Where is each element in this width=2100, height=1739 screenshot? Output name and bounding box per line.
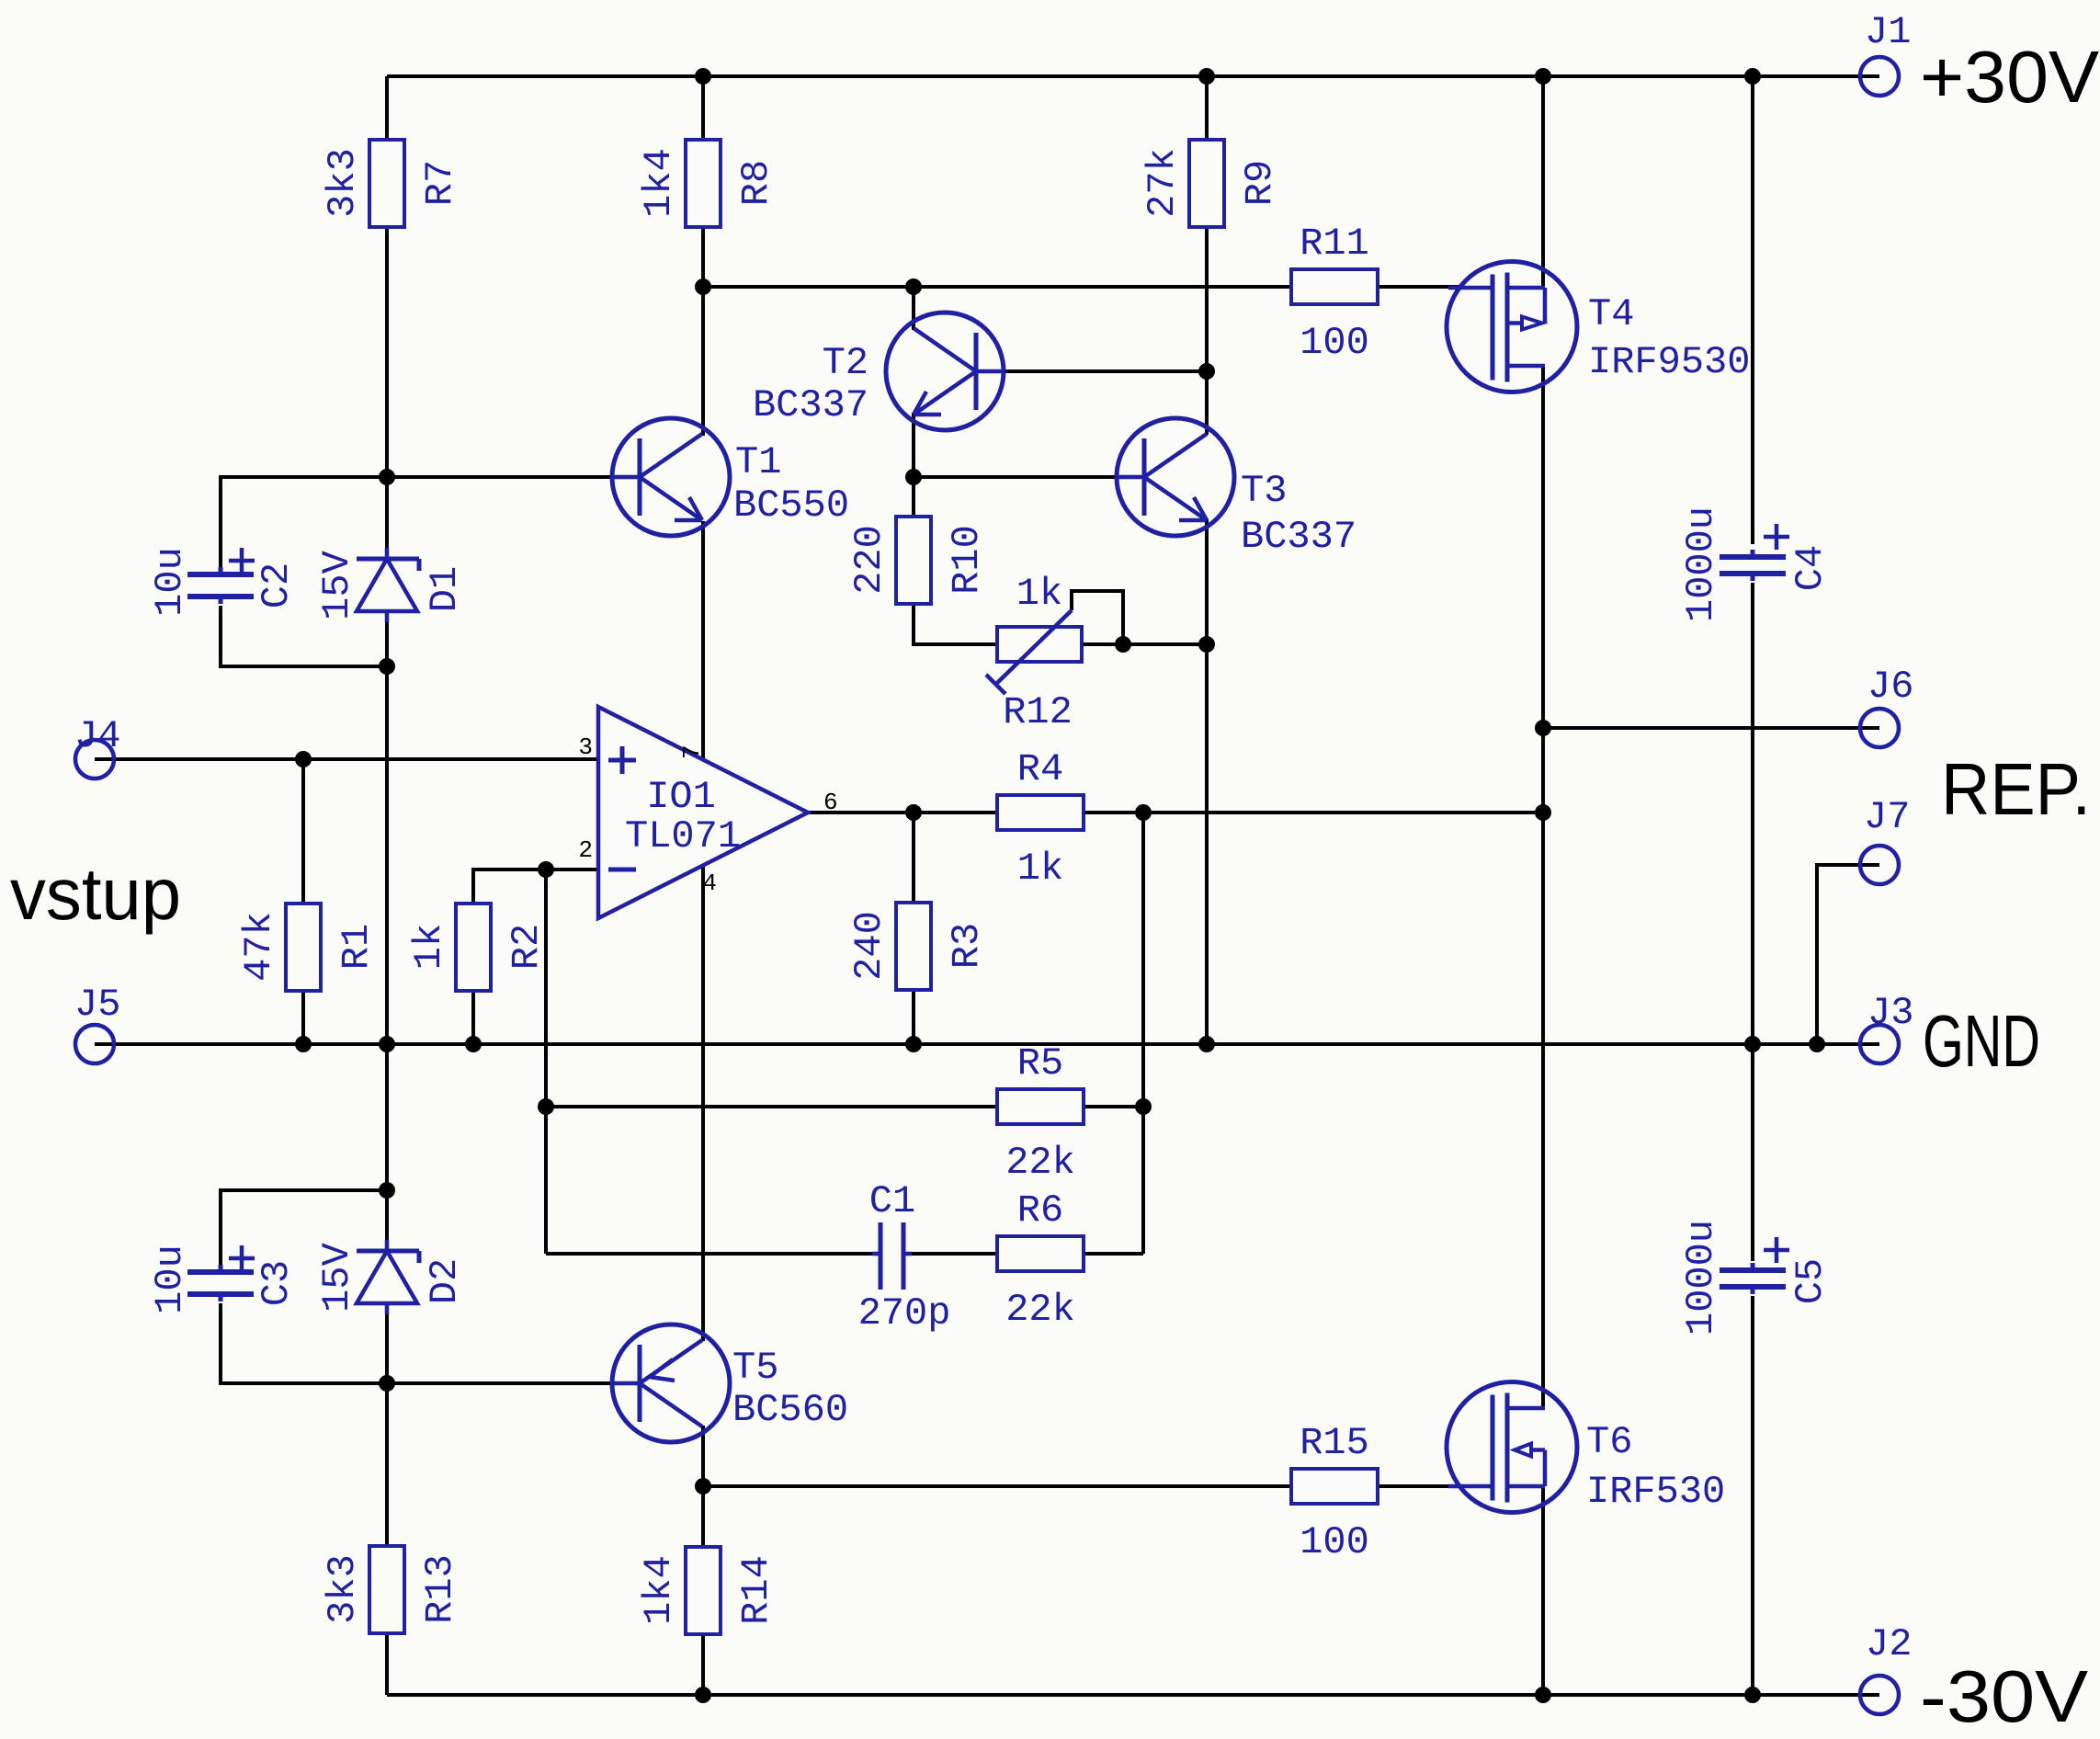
junction J7 GND xyxy=(1809,1036,1825,1052)
resistor R3 xyxy=(847,903,989,990)
svg-text:1k: 1k xyxy=(407,924,451,970)
wire R7 bottom to D1 node xyxy=(385,227,389,550)
junction R5 right xyxy=(1135,1098,1152,1115)
connector J3 xyxy=(1860,991,1913,1063)
zener diode D2 (15V) xyxy=(315,1240,467,1314)
junction T6 source rail xyxy=(1535,1687,1551,1703)
svg-text:GND: GND xyxy=(1923,1000,2040,1082)
svg-text:R6: R6 xyxy=(1017,1188,1063,1233)
junction T2 emitter/R10 xyxy=(905,469,922,485)
svg-text:240: 240 xyxy=(847,911,891,981)
wire op-amp pin 4 to T5 emitter xyxy=(701,867,705,1341)
svg-text:R4: R4 xyxy=(1017,747,1063,791)
wire R1 top lead xyxy=(301,759,305,904)
wire R2 top bracket xyxy=(473,869,598,904)
junction R9 top rail xyxy=(1198,68,1215,85)
wire R2 bottom lead xyxy=(471,991,475,1044)
wire C3 bottom corner xyxy=(221,1303,387,1383)
svg-text:C4: C4 xyxy=(1788,545,1833,591)
wire T5 base row xyxy=(387,1381,612,1385)
resistor R2 xyxy=(407,904,549,991)
junction D2/C3 top xyxy=(379,1182,395,1199)
svg-text:4: 4 xyxy=(702,869,717,897)
wire D2 node to C3 top xyxy=(221,1190,387,1265)
net label -30V xyxy=(1920,1655,2089,1737)
wire C1 row left xyxy=(546,1252,874,1256)
resistor R7 xyxy=(321,140,462,227)
svg-text:100: 100 xyxy=(1300,321,1369,365)
svg-text:-30V: -30V xyxy=(1920,1655,2089,1737)
svg-text:J1: J1 xyxy=(1865,10,1911,54)
svg-text:C2: C2 xyxy=(255,563,299,608)
svg-text:R3: R3 xyxy=(945,923,989,969)
transistor T1 (BC550 NPN) xyxy=(612,418,849,536)
wire T2 collector xyxy=(912,287,915,330)
transistor T2 (BC337 NPN, mirrored) xyxy=(753,313,1004,430)
op-amp U1 (IO1 TL071) xyxy=(598,707,808,918)
wire column A top (rail to R7) xyxy=(385,76,389,140)
svg-text:27k: 27k xyxy=(1141,148,1185,218)
connector J7 xyxy=(1860,795,1910,884)
wire R11 to T4 gate xyxy=(1376,285,1463,289)
wire +30V rail xyxy=(387,74,1879,78)
wire -30V rail xyxy=(387,1693,1879,1697)
wire R14 to -30V rail xyxy=(701,1634,705,1695)
resistor R13 xyxy=(321,1546,462,1633)
wire R12 wiper bracket xyxy=(1072,591,1123,644)
wire T5 collector to node xyxy=(701,1426,705,1547)
connector J4 xyxy=(74,714,120,779)
wire R6 right lead xyxy=(1084,1252,1143,1256)
capacitor C1 (270p) xyxy=(858,1179,951,1336)
svg-text:R11: R11 xyxy=(1300,222,1369,266)
junction T2 collector xyxy=(905,278,922,295)
junction R8 top rail xyxy=(695,68,711,85)
svg-text:15V: 15V xyxy=(315,551,359,620)
wire D2 anode to R13 xyxy=(385,1313,389,1546)
resistor R14 xyxy=(637,1547,778,1634)
junction R4/feedback xyxy=(1135,804,1152,821)
svg-text:220: 220 xyxy=(847,525,891,595)
wire op-amp output to R4 xyxy=(808,811,997,814)
svg-text:R10: R10 xyxy=(945,525,989,595)
wire C5 to -30V rail xyxy=(1751,1296,1754,1695)
trimmer R12 xyxy=(986,572,1082,734)
connector J1 xyxy=(1860,10,1911,96)
wire C4 to GND rail xyxy=(1751,583,1754,1044)
svg-text:47k: 47k xyxy=(237,912,281,982)
svg-text:D2: D2 xyxy=(423,1258,467,1304)
net label GND xyxy=(1923,1000,2040,1082)
resistor R15 xyxy=(1291,1421,1378,1564)
junction R3 GND xyxy=(905,1036,922,1052)
capacitor C2 (10u) xyxy=(148,547,299,617)
MOSFET T6 (IRF530 N-channel) xyxy=(1447,1382,1725,1515)
wire R3 top lead xyxy=(912,813,915,903)
resistor R8 xyxy=(637,140,778,227)
svg-text:15V: 15V xyxy=(315,1243,359,1313)
svg-text:T3: T3 xyxy=(1241,469,1287,513)
wire rail to R8 xyxy=(701,76,705,140)
junction T4 drain rail xyxy=(1535,68,1551,85)
svg-text:IO1: IO1 xyxy=(646,775,716,819)
junction column A GND xyxy=(379,1036,395,1052)
wire bias row (R8 node to R11) xyxy=(703,285,1291,289)
junction R12 wiper xyxy=(1115,636,1131,653)
svg-text:T6: T6 xyxy=(1586,1420,1632,1464)
svg-text:REP.: REP. xyxy=(1941,748,2091,830)
junction R8/T1 collector xyxy=(695,278,711,295)
svg-text:vstup: vstup xyxy=(10,853,181,935)
wire rail to C4 xyxy=(1751,76,1754,544)
wire GND rail xyxy=(95,1042,1879,1046)
svg-text:3: 3 xyxy=(578,733,593,761)
resistor R10 xyxy=(847,517,989,604)
wire REP output to J6 xyxy=(1543,726,1879,730)
junction D1/C2/T1 base xyxy=(379,469,395,485)
svg-text:J4: J4 xyxy=(74,714,120,758)
svg-text:T5: T5 xyxy=(732,1346,778,1390)
junction C4/C5 GND xyxy=(1744,1036,1761,1052)
resistor R11 xyxy=(1291,222,1378,365)
svg-text:3k3: 3k3 xyxy=(321,148,365,218)
wire R9 to T2 base node xyxy=(1205,227,1209,435)
svg-text:J3: J3 xyxy=(1867,991,1913,1035)
svg-text:BC337: BC337 xyxy=(753,383,868,427)
svg-text:1k4: 1k4 xyxy=(637,1555,681,1625)
svg-text:J2: J2 xyxy=(1866,1622,1912,1666)
junction T2 base/R9 xyxy=(1198,363,1215,380)
wire C2 bottom to D1 anode node xyxy=(221,606,387,666)
svg-text:IRF9530: IRF9530 xyxy=(1588,340,1750,384)
pin number 3 (op-amp +in) xyxy=(578,733,593,761)
wire R10 to R12 xyxy=(914,604,997,644)
svg-text:R8: R8 xyxy=(734,160,778,206)
svg-text:7: 7 xyxy=(678,744,706,759)
svg-text:1k4: 1k4 xyxy=(637,148,681,218)
svg-text:1k: 1k xyxy=(1016,572,1062,616)
wire R13 to -30V rail xyxy=(385,1633,389,1695)
wire D1 node to C2 top xyxy=(221,477,387,567)
pin number 2 (op-amp -in) xyxy=(578,836,593,864)
svg-text:22k: 22k xyxy=(1005,1141,1075,1185)
resistor R1 xyxy=(237,904,379,991)
junction C5 rail xyxy=(1744,1687,1761,1703)
capacitor C4 (1000u) xyxy=(1679,506,1833,622)
wire R5 row left xyxy=(546,1105,997,1108)
svg-text:2: 2 xyxy=(578,836,593,864)
wire R1 bottom lead xyxy=(301,991,305,1044)
svg-text:R2: R2 xyxy=(505,924,549,970)
wire feedback column right (R4 to R6) xyxy=(1141,813,1145,1254)
wire T4 source to T6 drain xyxy=(1541,366,1545,1408)
junction J6 branch xyxy=(1535,720,1551,736)
junction D2 anode/T5 base xyxy=(379,1375,395,1392)
junction op-amp pin2/R2 xyxy=(538,861,554,878)
wire R12 right lead xyxy=(1082,642,1207,646)
capacitor C5 (1000u) xyxy=(1679,1220,1833,1336)
wire T6 source to -30V rail xyxy=(1541,1486,1545,1695)
pin number 6 (op-amp out) xyxy=(823,789,838,816)
junction R14 bottom rail xyxy=(695,1687,711,1703)
connector J2 xyxy=(1860,1622,1912,1714)
resistor R5 xyxy=(997,1041,1084,1185)
wire R4 to output column xyxy=(1084,811,1543,814)
svg-text:270p: 270p xyxy=(858,1291,951,1336)
wire R8 to T1 collector xyxy=(701,227,705,436)
MOSFET T4 (IRF9530 P-channel) xyxy=(1447,262,1750,392)
junction output/R3 xyxy=(905,804,922,821)
svg-text:1000u: 1000u xyxy=(1679,506,1723,622)
svg-text:1000u: 1000u xyxy=(1679,1220,1723,1336)
zener diode D1 (15V) xyxy=(315,548,467,622)
svg-text:10u: 10u xyxy=(148,547,192,617)
net label vstup xyxy=(10,853,181,935)
svg-text:R7: R7 xyxy=(418,160,462,206)
wire GND rail to C5 xyxy=(1751,1044,1754,1261)
svg-text:10u: 10u xyxy=(148,1245,192,1314)
transistor T3 (BC337 NPN) xyxy=(1117,418,1356,559)
svg-text:T1: T1 xyxy=(735,440,781,484)
wire T1 base row xyxy=(387,475,612,479)
svg-text:T4: T4 xyxy=(1588,292,1634,336)
svg-text:T2: T2 xyxy=(823,341,868,385)
svg-text:J5: J5 xyxy=(74,983,120,1027)
svg-text:C3: C3 xyxy=(255,1260,299,1306)
svg-text:R9: R9 xyxy=(1238,160,1282,206)
svg-text:100: 100 xyxy=(1300,1520,1369,1564)
resistor R6 xyxy=(997,1188,1084,1332)
junction R5 left xyxy=(538,1098,554,1115)
transistor T5 (BC560 PNP) xyxy=(612,1324,848,1442)
capacitor C3 (10u) xyxy=(148,1245,299,1314)
wire J4 to op-amp pin 3 xyxy=(95,757,598,761)
junction output/column D xyxy=(1535,804,1551,821)
svg-text:3k3: 3k3 xyxy=(321,1554,365,1624)
wire rail to R9 xyxy=(1205,76,1209,140)
pin number 7 (op-amp V+) xyxy=(678,744,706,759)
wire R3 bottom lead xyxy=(912,990,915,1044)
wire rail to T4 drain xyxy=(1541,76,1545,288)
net label +30V xyxy=(1920,36,2100,118)
svg-text:22k: 22k xyxy=(1005,1288,1075,1332)
connector J6 xyxy=(1860,665,1913,747)
wire T3 emitter to GND xyxy=(1205,519,1209,1044)
junction C4 rail xyxy=(1744,68,1761,85)
wire J7 lead xyxy=(1817,865,1879,1044)
junction R1 GND xyxy=(295,1036,312,1052)
svg-text:+30V: +30V xyxy=(1920,36,2100,118)
wire D1 anode to D2 node xyxy=(385,620,389,1242)
wire R5 to column xyxy=(1084,1105,1143,1108)
svg-text:BC550: BC550 xyxy=(733,483,849,528)
junction R12/T3 emitter xyxy=(1198,636,1215,653)
svg-text:R13: R13 xyxy=(418,1554,462,1624)
svg-text:J7: J7 xyxy=(1864,795,1910,839)
svg-text:R1: R1 xyxy=(335,924,379,970)
svg-text:TL071: TL071 xyxy=(625,814,741,858)
svg-text:BC560: BC560 xyxy=(732,1388,848,1432)
junction T5 collector/R15 xyxy=(695,1478,711,1495)
junction T3 emitter GND xyxy=(1198,1036,1215,1052)
wire T2 emitter row to T3 base xyxy=(914,475,1118,479)
connector J5 xyxy=(74,983,120,1063)
svg-text:C1: C1 xyxy=(869,1179,915,1223)
svg-text:R5: R5 xyxy=(1017,1041,1063,1085)
svg-text:R15: R15 xyxy=(1300,1421,1369,1465)
net label REP. xyxy=(1941,748,2091,830)
svg-text:J6: J6 xyxy=(1867,665,1913,709)
wire T5 collector node to R15 xyxy=(703,1484,1291,1488)
wire T1 emitter to op-amp pin 7 xyxy=(701,521,705,760)
wire T2 base to column C xyxy=(1004,369,1207,373)
svg-text:BC337: BC337 xyxy=(1241,515,1356,559)
svg-text:C5: C5 xyxy=(1788,1258,1833,1304)
svg-text:1k: 1k xyxy=(1017,847,1063,891)
wire feedback column (pin2 down) xyxy=(544,869,548,1254)
svg-text:R14: R14 xyxy=(734,1555,778,1625)
junction R2 GND xyxy=(465,1036,482,1052)
svg-text:6: 6 xyxy=(823,789,838,816)
resistor R9 xyxy=(1141,140,1282,227)
wire R15 to T6 gate xyxy=(1376,1484,1463,1488)
svg-text:R12: R12 xyxy=(1003,690,1073,734)
junction D1 anode/C2 xyxy=(379,658,395,675)
wire T2 emitter to R10 xyxy=(912,413,915,517)
resistor R4 xyxy=(997,747,1084,891)
wire C1 to R6 xyxy=(910,1252,997,1256)
junction R1/J4 xyxy=(295,751,312,767)
svg-text:D1: D1 xyxy=(423,566,467,612)
pin number 4 (op-amp V-) xyxy=(702,869,717,897)
svg-text:IRF530: IRF530 xyxy=(1586,1470,1725,1514)
